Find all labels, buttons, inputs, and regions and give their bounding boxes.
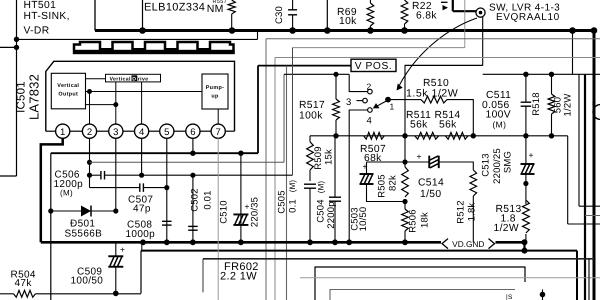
svg-text:100/50: 100/50 [71, 275, 104, 286]
ground bus thick y=242.3 [41, 241, 441, 244]
wire rail corner down x=567.7 [567, 136, 569, 224]
svg-text:10/50: 10/50 [358, 207, 369, 232]
wire vertical x=257.5 ELB box right edge [257, 31, 259, 40]
svg-text:+: + [529, 150, 534, 160]
wire top rail y=74.3 right [483, 73, 600, 75]
wire C506 left [90, 174, 101, 176]
svg-text:1/2W: 1/2W [563, 94, 574, 117]
svg-text:ELB10Z334: ELB10Z334 [144, 2, 205, 14]
ground lower corner down x=577 [576, 251, 578, 300]
node junction at (16.5,47) [14, 45, 19, 50]
wire C503 top link [367, 161, 406, 163]
wire y=39.5 box bottom ELB10Z334 [17, 38, 258, 40]
wire terminal 4 to ground [349, 110, 368, 242]
arrow tick symbol near R22 [441, 1, 448, 3]
svg-text:2.2 1W: 2.2 1W [220, 271, 257, 283]
node junction C510 (240.9,153.2) [238, 151, 243, 156]
wire drop x=95 to bus [94, 0, 96, 31]
wire y=74.3 to potentiometer [284, 73, 349, 75]
block Vertical Output inside IC [51, 73, 85, 109]
svg-text:R517: R517 [299, 100, 325, 111]
block Pump-up inside IC [202, 74, 228, 109]
node junction (525.9,183.5) [523, 181, 528, 186]
pin 2 circle [82, 124, 96, 138]
pin 4 circle [135, 124, 149, 138]
wire x=405 from frame down to rail [404, 66, 406, 136]
resistor R514 zigzag on rail [445, 132, 468, 139]
block Vertical Drive label [106, 74, 161, 82]
wire pin5 vertical full [166, 138, 168, 242]
frame inner box bottom [330, 290, 515, 300]
pin 3 circle [109, 124, 123, 138]
wire pin4 vertical inside IC from Vertical Drive [141, 82, 143, 124]
wire from SW LVR circle down [482, 17, 484, 66]
svg-text:47k: 47k [15, 278, 33, 289]
frame vertical x=579 stair [578, 74, 580, 206]
node junction (405,201.5) [402, 199, 407, 204]
wire C507 left from pin2 net [90, 187, 140, 189]
svg-text:V-DR: V-DR [24, 26, 50, 37]
resistor R507 68k on rail [364, 132, 385, 139]
label box V POS. [351, 59, 396, 71]
svg-text:1/50: 1/50 [420, 189, 441, 200]
power bus thick horizontal y=30.5 [95, 29, 594, 32]
svg-text:2200p: 2200p [326, 201, 337, 228]
svg-text:R509: R509 [313, 146, 324, 170]
svg-text:R505: R505 [377, 174, 388, 198]
ground bus jog at x=524.5 [523, 242, 525, 250]
svg-text:1000p: 1000p [126, 229, 156, 240]
svg-text:10k: 10k [339, 16, 357, 27]
svg-text:15k: 15k [324, 149, 335, 165]
diode D501 S5566B [51, 210, 81, 212]
svg-text:C502: C502 [190, 188, 201, 212]
svg-text:up: up [211, 94, 219, 100]
wire pin1 to ground thick path [41, 138, 63, 242]
svg-text:D: D [132, 76, 136, 82]
frame line y=38.8 right section [266, 38, 600, 40]
node bus junction x=232 [229, 27, 236, 34]
frame line y=258.8 to right [203, 258, 594, 260]
pin 7 circle [211, 124, 225, 138]
frame gray line y=279.5 [300, 277, 600, 279]
svg-text:220/35: 220/35 [250, 197, 261, 227]
block FR602 2.2 1W box [202, 259, 204, 293]
node rail junction (525.9,135.8) [523, 133, 528, 138]
svg-text:(M): (M) [317, 181, 326, 194]
svg-text:HT501: HT501 [24, 0, 57, 11]
wire vertical x=284 up [283, 74, 285, 162]
node ground junction (192.9,242.3) [190, 239, 196, 245]
svg-text:(M): (M) [60, 189, 73, 198]
node bus junction x=142.5 [139, 27, 146, 34]
svg-text:SMG: SMG [503, 151, 514, 173]
svg-text:0.01: 0.01 [203, 190, 214, 209]
wire pin4 below IC [141, 138, 143, 175]
node bus junction x=404.5 [401, 27, 408, 34]
svg-text:R512: R512 [456, 200, 467, 224]
svg-text:5: 5 [164, 127, 169, 138]
node rail junction (336,135.8) [333, 133, 338, 138]
svg-text:VD.GND: VD.GND [452, 239, 484, 249]
svg-text:Output: Output [58, 92, 78, 98]
svg-text:2200/25: 2200/25 [492, 148, 503, 184]
wire node1 to R510 node [388, 99, 405, 101]
svg-text:C504: C504 [316, 199, 327, 223]
wire C503 bottom link [367, 184, 406, 202]
svg-text:100k: 100k [299, 111, 323, 122]
wire net y=175.2 to frame corner [142, 174, 293, 176]
wire C514 left [405, 161, 429, 163]
pin 1 circle [56, 124, 70, 138]
svg-text:C30: C30 [274, 6, 285, 24]
svg-text:(M): (M) [288, 180, 297, 193]
wire vertical left net at x=16 [16, 0, 18, 176]
wire C507 right to pin5 [143, 187, 166, 189]
wire frame stub x=465 [464, 0, 466, 48]
rail y=135.8 mid horizontal [310, 135, 568, 137]
wire vertical x=292.5 up to y=47.6 [292, 48, 294, 176]
curved arrow from SW LVR to potentiometer [400, 18, 478, 85]
switch SW LVR 4-1-3 EVQRAAL10 lead [452, 0, 454, 11]
wire pin6 vertical [192, 138, 194, 153]
svg-text:S5566B: S5566B [65, 228, 103, 239]
node rail junction (473.3,135.8) [471, 133, 476, 138]
svg-text:Vertical: Vertical [57, 83, 79, 89]
frame line y=65.6 block border [258, 65, 351, 67]
power bus thick vertical right edge x=594 [593, 31, 596, 300]
wire y=91.5 inside IC to Pump-up [86, 91, 203, 93]
node bus junction x=572.5 [569, 27, 576, 34]
svg-text:1: 1 [390, 102, 395, 112]
svg-text:1.8k: 1.8k [467, 203, 478, 222]
node 1 dot [385, 97, 391, 103]
net label VD.GND [442, 239, 448, 249]
frame line y=215.5 right edge [585, 215, 600, 217]
node junction (192.9,175.2) [190, 173, 195, 178]
svg-text:82k: 82k [388, 175, 399, 191]
terminal 2 circle [368, 89, 373, 94]
node junction at (16.5,39) [14, 37, 19, 42]
wire vertical x=572.5 short drop from bus [572, 31, 574, 75]
pin 6 circle [186, 124, 200, 138]
svg-text:C510: C510 [219, 200, 230, 224]
pin 5 circle [160, 124, 174, 138]
node rail junction (405,135.8) [402, 133, 407, 138]
wire C514 right [439, 162, 474, 170]
svg-text:1: 1 [60, 127, 65, 138]
node junction pin6 (192.9,153.2) [190, 151, 195, 156]
svg-text:18k: 18k [420, 212, 431, 228]
node ground junction (310,242.3) [307, 239, 313, 245]
connector box right edge [584, 74, 586, 300]
svg-text:+: + [417, 152, 422, 162]
svg-text:3: 3 [113, 127, 118, 138]
svg-text:Pump-: Pump- [206, 85, 225, 91]
svg-text:4: 4 [139, 127, 144, 138]
svg-text:3: 3 [346, 97, 352, 108]
node junction (525.9,74.3) [523, 72, 528, 77]
svg-text:56k: 56k [439, 119, 457, 130]
svg-text:2: 2 [87, 127, 92, 138]
connector circle right top [593, 105, 600, 120]
frame corner y=206.2 to right edge [579, 205, 600, 207]
wire drop x=142.5 from top [142, 0, 144, 31]
wire C510 vertical [240, 153, 242, 242]
svg-text:1.5k 1/2W: 1.5k 1/2W [406, 87, 458, 99]
node ground junction (143,242.3) [140, 239, 146, 245]
svg-text:1/2W: 1/2W [494, 223, 519, 234]
node junction (551.5,74.3) [549, 72, 554, 77]
node bus junction x=370.4 [367, 27, 374, 34]
svg-text:s: s [592, 100, 596, 107]
svg-text:4: 4 [367, 116, 373, 127]
wire x=50.8 from corner down [50, 153, 52, 300]
node rail junction (551.5,135.8) [549, 133, 554, 138]
frame line y=47.6 [293, 47, 466, 49]
node junction (89.5,162.3) [87, 160, 92, 165]
wire segments between pins [70, 130, 83, 132]
node junction (166.8,187.6) [164, 185, 169, 190]
wire Pump-up box down to pin7 [217, 109, 219, 124]
svg-text:56k: 56k [410, 119, 428, 130]
node junction (89.5,175.2) [87, 173, 92, 178]
resistor R557 (NM) vertical at top [228, 0, 235, 14]
wire pin2 below IC [89, 138, 91, 187]
wire R504 to C509 [36, 293, 142, 295]
node bus junction x=292.6 [289, 27, 296, 34]
frame vertical x=589 bottom right [588, 259, 590, 300]
svg-text:(M): (M) [493, 119, 507, 129]
node junction (115.8,104.6) [113, 102, 118, 107]
wire y=47 to left edge [0, 46, 17, 48]
node junction (141.6,175.2) [139, 173, 144, 178]
wire pin2 vertical [89, 92, 91, 125]
frame line y=57.5 [275, 57, 600, 59]
wire R510 right end down [447, 100, 473, 136]
svg-text:EVQRAAL10: EVQRAAL10 [496, 12, 560, 23]
wire C506 right to pin4 node [105, 174, 142, 176]
svg-text:+: + [120, 245, 125, 255]
node bottom-right connector dot [540, 292, 546, 298]
svg-text:6: 6 [190, 127, 195, 138]
node bus corner x=594 [591, 27, 598, 34]
node ground junction (349.2,242.3) [346, 239, 352, 245]
svg-text:0.1: 0.1 [288, 199, 299, 213]
svg-text:47p: 47p [133, 203, 151, 214]
svg-text:Vertical: Vertical [110, 77, 131, 83]
svg-text:6.8k: 6.8k [416, 10, 437, 21]
frame corner vertical x=258 thick [257, 66, 259, 154]
node junction R517 top (336,74.3) [333, 72, 338, 77]
svg-text:HT-SINK,: HT-SINK, [24, 11, 70, 22]
wire y=176 to left edge [0, 175, 17, 177]
terminal 3 circle [363, 98, 368, 103]
terminal 4 circle [368, 108, 373, 113]
wire pin3 vertical inside IC [115, 105, 117, 125]
wire pin7 gray vertical [217, 138, 219, 300]
node ground junction (405,242.3) [402, 239, 408, 245]
frame corner vertical x=275 [274, 58, 276, 300]
svg-text:+: + [363, 162, 368, 172]
frame bottom nested box [315, 267, 525, 300]
wire terminal 2 elbow [349, 74, 368, 91]
node junction (405,162) [402, 159, 407, 164]
wire Vertical Drive box down to pin3 node [115, 82, 117, 105]
frame corner y=224 to right edge [568, 223, 600, 225]
svg-text:C505: C505 [277, 190, 288, 214]
node junction (89.5,92.3) [87, 89, 92, 94]
node ground junction (240.9,242.3) [238, 239, 244, 245]
frame vertical x=286.5 [286, 66, 288, 300]
node junction (115.8,293.4) [113, 291, 119, 297]
terminal circle of SW LVR [476, 8, 485, 17]
node ground junction (166.8,242.3) [164, 239, 170, 245]
node ground junction (335,242.3) [332, 239, 338, 245]
wiper arrow from node 1 to terminal 4 [378, 101, 388, 106]
svg-text:2: 2 [367, 81, 372, 91]
frame corner vertical x=266 [265, 39, 267, 300]
wire thick y=153.2 from x=50.8 to x=257.5 [51, 152, 258, 154]
heatsink shape above IC [74, 42, 234, 50]
svg-text:LA7832: LA7832 [27, 74, 42, 120]
svg-text:rive: rive [138, 77, 149, 83]
svg-text:R506: R506 [408, 209, 419, 233]
ground bus lower thick y=250.6 [141, 250, 577, 252]
wire gray net y=162.3 [90, 161, 285, 163]
resistor R511 zigzag on rail [415, 132, 439, 139]
IC IC501 LA7832 outline [46, 61, 235, 131]
wire y=104.6 inside IC [86, 104, 116, 106]
wire pin3 below IC [115, 138, 117, 211]
wire drop x=327.3 [326, 0, 328, 31]
svg-text:R557: R557 [213, 0, 228, 5]
svg-text:R518: R518 [531, 92, 542, 116]
wire C502 net down from y=175.2 line [192, 175, 194, 242]
svg-text:V POS.: V POS. [355, 61, 393, 72]
svg-text:+: + [245, 202, 250, 212]
svg-text:|S: |S [506, 294, 513, 300]
wire x=405 rail to R505 [404, 136, 406, 167]
bottom box left edge x=141 [140, 251, 142, 294]
svg-text:C513: C513 [481, 153, 492, 177]
node bus junction x=327.3 [324, 27, 331, 34]
wire Vertical Output to Vertical Drive [86, 78, 106, 80]
svg-text:7: 7 [216, 127, 221, 138]
svg-text:C514: C514 [418, 178, 444, 189]
